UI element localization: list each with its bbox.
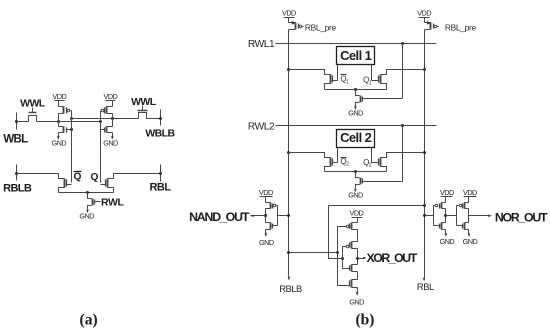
node RBLB junction part a	[15, 172, 18, 175]
node RBL cell1 tap	[423, 68, 426, 71]
node RBLB NAND tap	[287, 214, 290, 217]
wire XOR outer gate vertical	[337, 227, 339, 286]
node RBL top feed tap	[423, 204, 426, 207]
node RWL1 branch	[401, 42, 404, 45]
node RBL NOR tap	[423, 214, 426, 217]
ground NOR inverter1	[445, 233, 448, 237]
cell Cell 2 box	[337, 130, 375, 148]
svg-text:2: 2	[369, 163, 372, 169]
transistor M10 cell2 read right (Q2)	[381, 153, 425, 158]
wire RBLB rail	[288, 30, 290, 277]
wire RBL rail	[424, 30, 426, 278]
transistor N6 XOR NMOS inner (RBL gate)	[352, 264, 358, 266]
svg-text:RBLB: RBLB	[279, 283, 302, 294]
ground NAND inverter	[265, 233, 268, 237]
wire XOR chain n6-n7	[357, 272, 359, 280]
node RBL junction part a	[159, 172, 162, 175]
transistor N8 NOR-inverter1 NMOS	[442, 222, 446, 224]
transistor N1 left-inverter NMOS	[59, 126, 64, 128]
wire right inverter drain chain	[112, 114, 114, 127]
svg-text:VDD: VDD	[282, 8, 296, 17]
transistor N2 right-inverter NMOS	[107, 126, 113, 128]
wire RBL to XOR inner gates	[329, 206, 343, 259]
svg-text:WBL: WBL	[3, 133, 28, 145]
node cell1 common source	[354, 88, 357, 91]
wire NOR inverter2 drain chain	[468, 209, 470, 223]
svg-text:VDD: VDD	[259, 188, 273, 197]
wire NOR inter-stage line	[446, 215, 457, 217]
svg-text:NOR_OUT: NOR_OUT	[495, 210, 548, 224]
wire RWL1	[276, 43, 437, 45]
svg-text:1: 1	[346, 79, 349, 85]
transistor M3 read left (Qbar gate)	[17, 174, 65, 179]
svg-text:1: 1	[369, 80, 372, 86]
svg-text:(b): (b)	[356, 311, 375, 328]
svg-text:GND: GND	[348, 191, 363, 200]
wire WBL bitline stub	[16, 113, 18, 130]
node XOR inner gate junction	[341, 257, 344, 260]
node Q on left inverter output	[57, 120, 60, 123]
wire RBL rail arrow	[423, 278, 426, 282]
transistor M2 write-access right (WWL gate)	[139, 113, 147, 119]
transistor M4 read right (Q gate)	[108, 174, 161, 179]
wire NOR inverter1 source	[445, 230, 447, 234]
svg-text:Q: Q	[74, 171, 82, 182]
transistor N7 XOR NMOS outer (RBLB gate)	[352, 279, 358, 281]
transistor N9 NOR-inverter2 NMOS	[465, 222, 469, 224]
wire NAND inverter gate line	[277, 206, 279, 226]
wire XOR chain p6-p7	[357, 230, 359, 242]
wire NOR inverter1 drain chain	[445, 209, 447, 223]
wire WBLB bitline stub	[160, 110, 162, 126]
svg-text:XOR_OUT: XOR_OUT	[367, 251, 418, 265]
wire right inverter source to ground	[112, 133, 114, 137]
svg-text:GND: GND	[79, 211, 94, 220]
transistor M11 cell2 foot (RWL2 gate)	[356, 172, 360, 178]
wire VDD lead NOR inverter1	[445, 197, 447, 203]
transistor P1 left-inverter PMOS	[59, 106, 64, 108]
transistor M8 cell1 foot (RWL1 gate)	[356, 90, 360, 96]
label NOR_OUT arrow	[488, 215, 492, 218]
svg-text:WBLB: WBLB	[145, 128, 175, 140]
svg-text:NAND_OUT: NAND_OUT	[189, 210, 250, 224]
svg-text:GND: GND	[103, 139, 118, 148]
transistor M1 write-access left (WWL gate)	[29, 116, 37, 122]
svg-text:VDD: VDD	[417, 8, 431, 17]
wire XOR inner gate vertical	[342, 247, 344, 269]
wire NOR input tap from RBL	[425, 215, 434, 217]
svg-text:RBL_pre: RBL_pre	[445, 22, 477, 32]
wire left inverter drain chain	[58, 114, 60, 127]
svg-text:2: 2	[346, 162, 349, 168]
wire RWL2	[276, 125, 437, 127]
wire Q vertical (right inverter gate to read port)	[100, 111, 102, 183]
node WBL junction	[15, 120, 18, 123]
svg-text:RWL: RWL	[101, 196, 125, 208]
wire cell1 common source bar	[325, 89, 387, 91]
node Qbar gate junction lower	[70, 128, 73, 131]
wire RBL top feed	[329, 205, 425, 207]
wire RWL1 drop to cell1 foot gate	[402, 44, 404, 99]
ground cell1 foot	[354, 106, 357, 110]
wire RBL stub part a	[160, 165, 162, 182]
wire Q storage-node horizontal (lower)	[17, 121, 29, 123]
wire Qbar2 gate lead from Cell 2	[337, 148, 339, 163]
wire NOR inverter2 gate line	[456, 206, 458, 226]
svg-text:GND: GND	[349, 297, 364, 306]
svg-text:VDD: VDD	[52, 92, 66, 101]
wire VDD lead NOR inverter2	[468, 197, 470, 203]
svg-text:VDD: VDD	[440, 188, 454, 197]
svg-text:GND: GND	[440, 237, 455, 246]
node NAND inverter output	[264, 214, 267, 217]
transistor P8 NOR-inverter1 PMOS	[442, 202, 446, 204]
wire XOR output chain	[357, 249, 359, 265]
svg-text:RBL: RBL	[417, 281, 434, 292]
transistor M6 cell1 read left (Qbar1)	[289, 70, 331, 75]
ground right inverter	[111, 136, 114, 140]
wire RBLB stub part a	[16, 165, 18, 181]
node WBLB junction	[159, 117, 162, 120]
svg-text:GND: GND	[463, 237, 478, 246]
wire NOR inverter1 gate line	[433, 206, 435, 226]
ground NOR inverter2	[468, 233, 471, 237]
node XOR output	[356, 257, 359, 260]
node cell2 common source	[354, 170, 357, 173]
transistor P5 NAND-inverter PMOS	[266, 202, 271, 204]
ground XOR stack	[356, 292, 359, 296]
node NOR inverter1 output	[444, 214, 447, 217]
wire VDD lead NAND inverter	[265, 197, 267, 203]
wire Q1 gate lead from Cell 1	[371, 65, 373, 81]
ground left inverter	[57, 136, 60, 140]
wire NAND inverter source	[265, 230, 267, 234]
wire NAND input tap from RBLB	[278, 215, 289, 217]
ground read foot	[86, 210, 89, 214]
label XOR_OUT arrow	[363, 257, 367, 260]
svg-text:VDD: VDD	[350, 209, 364, 218]
svg-text:RBLB: RBLB	[3, 183, 32, 195]
wire NOR inverter2 source	[468, 230, 470, 234]
node RBLB XOR tap	[287, 251, 290, 254]
node Qbar gate junction upper	[70, 117, 73, 120]
transistor P6 XOR PMOS outer (RBLB gate)	[352, 222, 358, 224]
wire RBLB to XOR outer gates	[289, 252, 338, 254]
svg-text:VDD: VDD	[463, 188, 477, 197]
wire Qbar horizontal (upper cross-couple)	[72, 118, 139, 120]
cell Cell 1 box	[337, 47, 375, 65]
wire VDD lead left inverter	[58, 101, 60, 107]
wire Qbar1 gate lead from Cell 1	[337, 65, 339, 81]
transistor N5 NAND-inverter NMOS	[266, 222, 271, 224]
node XOR outer gate junction	[336, 251, 339, 254]
ground cell2 foot	[354, 189, 357, 193]
node RBLB cell1 tap	[287, 68, 290, 71]
wire cell2 common source bar	[325, 171, 387, 173]
transistor P7 XOR PMOS inner (RBL gate)	[352, 241, 358, 243]
svg-text:GND: GND	[259, 238, 274, 247]
wire RWL2 drop to cell2 foot gate	[402, 126, 404, 182]
wire XOR source	[357, 288, 359, 293]
node RWL2 branch	[401, 124, 404, 127]
transistor M5 read-wordline foot (RWL gate)	[88, 193, 92, 199]
node RBLB cell2 tap	[287, 151, 290, 154]
svg-text:GND: GND	[348, 108, 363, 117]
svg-text:(a): (a)	[80, 311, 98, 328]
svg-text:RBL: RBL	[149, 182, 171, 194]
transistor P9 NOR-inverter2 PMOS	[465, 202, 469, 204]
wire left inverter source to ground	[58, 133, 60, 137]
transistor M9 cell2 read left (Qbar2)	[289, 153, 331, 158]
wire read-port common source bar	[59, 192, 114, 194]
svg-text:Q: Q	[91, 172, 99, 183]
wire RBLB rail arrow	[288, 277, 291, 281]
node Q at right inverter gate	[99, 120, 102, 123]
wire NAND inverter drain chain	[265, 209, 267, 223]
svg-text:Cell 2: Cell 2	[340, 130, 371, 145]
wire NAND output line	[251, 215, 266, 217]
wire Q2 gate lead from Cell 2	[371, 148, 373, 163]
node RBL cell2 tap	[423, 151, 426, 154]
wire NOR output line	[469, 215, 489, 217]
wire XOR output line	[358, 258, 364, 260]
svg-text:Cell 1: Cell 1	[340, 48, 371, 63]
svg-text:GND: GND	[52, 139, 67, 148]
transistor M7 cell1 read right (Q1)	[381, 70, 425, 75]
transistor P3 RBL_pre precharge left	[288, 18, 290, 23]
wire Qbar vertical (left inverter gate to read port)	[71, 111, 73, 183]
svg-text:VDD: VDD	[104, 92, 118, 101]
wire VDD lead right inverter	[112, 101, 114, 107]
transistor P2 right-inverter PMOS	[107, 106, 113, 108]
svg-text:RBL_pre: RBL_pre	[305, 22, 337, 32]
svg-text:RWL1: RWL1	[248, 39, 275, 50]
node read common source	[86, 191, 89, 194]
transistor P4 RBL_pre precharge right	[424, 18, 426, 23]
wire VDD lead XOR	[357, 218, 359, 223]
svg-text:WWL: WWL	[131, 96, 157, 108]
label NAND_OUT arrow	[250, 215, 254, 218]
node Qbar on right inverter output	[111, 117, 114, 120]
svg-text:RWL2: RWL2	[248, 122, 275, 133]
